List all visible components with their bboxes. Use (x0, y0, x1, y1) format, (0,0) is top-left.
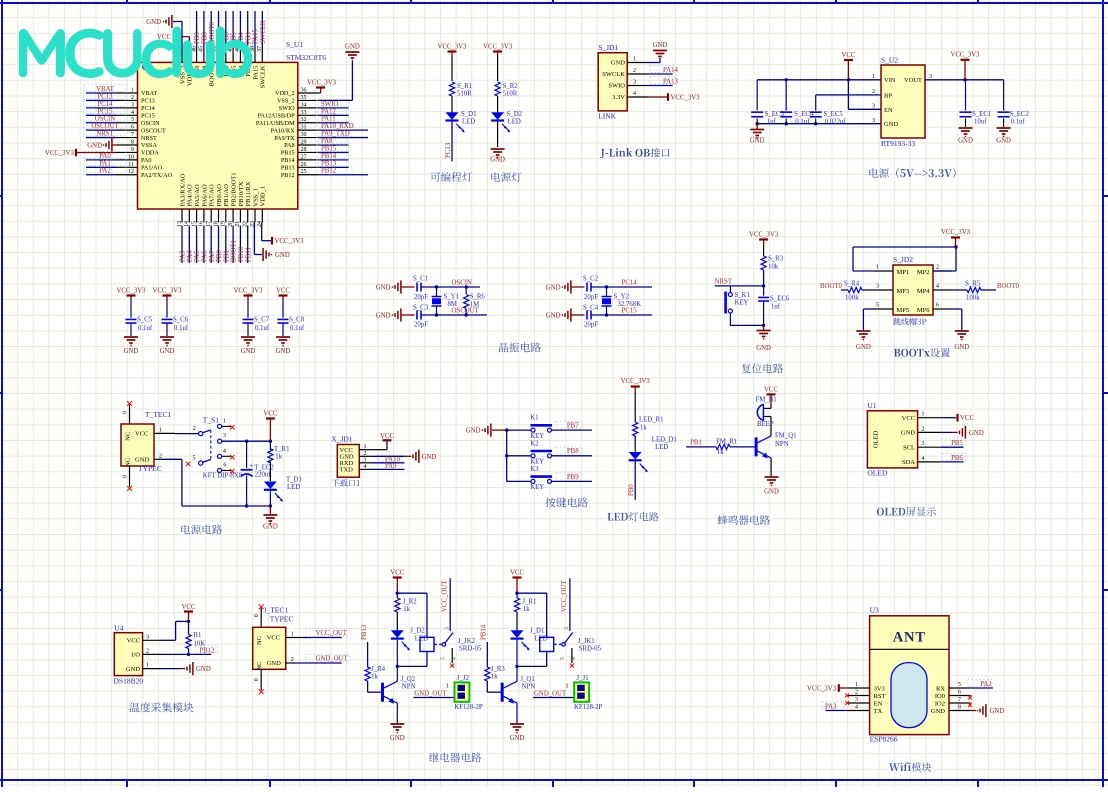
svg-text:5: 5 (876, 303, 879, 309)
svg-text:2: 2 (855, 690, 858, 696)
pin 2 (I/O) of U4 (131, 648, 160, 658)
svg-text:SCL: SCL (903, 445, 915, 452)
svg-text:10: 10 (128, 154, 134, 160)
svg-text:PB0: PB0 (216, 250, 223, 262)
svg-text:PA11/USB/DM: PA11/USB/DM (256, 120, 295, 127)
svg-text:KEY: KEY (735, 300, 749, 307)
svg-text:2: 2 (131, 95, 134, 101)
svg-text:PC13: PC13 (141, 98, 155, 105)
svg-text:PA7/AO: PA7/AO (209, 184, 216, 206)
wire + net label OSCOUT (84, 122, 126, 130)
svg-text:GND: GND (884, 121, 898, 128)
svg-text:S_EC5: S_EC5 (824, 111, 844, 118)
svg-text:S_Y1: S_Y1 (444, 294, 460, 301)
caption OLED屏显示 (877, 507, 936, 516)
pin 6 (OSCOUT) of S_U1, left (116, 125, 166, 135)
pin 41 (PB5) of S_U1, top (228, 46, 238, 77)
pin 7 (NRST) of S_U1, left (116, 132, 157, 142)
value 下载口1 (332, 479, 360, 487)
power port VCC (OLED) (958, 414, 975, 422)
svg-text:VSSA: VSSA (141, 142, 157, 149)
svg-text:VCC: VCC (135, 431, 148, 438)
svg-text:1uf: 1uf (771, 304, 781, 311)
wire + net label PC13 (84, 92, 126, 100)
no-connect markers on T_S1 (186, 425, 235, 473)
value TYPEC (138, 464, 162, 473)
svg-text:PB14: PB14 (281, 157, 295, 164)
svg-text:PB0: PB0 (628, 484, 635, 496)
svg-text:KEY: KEY (530, 459, 544, 466)
svg-text:VCC_3V3: VCC_3V3 (950, 52, 980, 59)
power port VCC (T circuit) (263, 411, 277, 442)
svg-text:GND: GND (263, 524, 278, 531)
svg-text:SWCLK: SWCLK (602, 71, 625, 78)
pin 0 bottom stub of J_TEC1 (254, 669, 261, 690)
svg-text:PA8: PA8 (284, 142, 294, 149)
wire pin2 to ground (940, 431, 957, 433)
capacitor S_EC6 1uf (758, 286, 790, 326)
wire + net label PC15 (84, 107, 126, 115)
resistor LED_R1 1k (633, 417, 664, 437)
relay contact pin4 stub (571, 648, 573, 663)
ground (DS18B20) (184, 662, 211, 675)
caption 继电器电路 (429, 753, 481, 763)
power port VCC (J_JK2 block) (390, 570, 404, 594)
pin 8 (GND) of U3 (931, 705, 971, 715)
svg-text:PB12: PB12 (199, 647, 215, 654)
power port VCC (supply input) (841, 52, 855, 80)
svg-text:VCC_OUT: VCC_OUT (561, 580, 568, 612)
svg-text:TXD: TXD (340, 467, 354, 474)
wire switch pin3 to VCC rail (222, 440, 271, 442)
svg-text:7: 7 (958, 697, 961, 703)
wire + net label PB1 (bottom) (223, 226, 230, 264)
LED T_D1 (264, 477, 302, 502)
power port VCC_3V3 (S_R1 column) (437, 44, 467, 58)
svg-text:GND: GND (87, 143, 102, 150)
svg-text:LINK: LINK (598, 112, 616, 121)
power port VCC_3V3 (S_JD1 pin4) (668, 93, 700, 101)
svg-text:BOOT0: BOOT0 (997, 283, 1020, 290)
resistor FM_R1 1k (716, 438, 737, 456)
wire + net label SWCLK (top) (260, 11, 267, 49)
ground (S_C4) (546, 308, 571, 321)
wire + net label PB8 (552, 447, 593, 456)
svg-text:26: 26 (301, 162, 307, 168)
svg-text:PB7: PB7 (567, 423, 579, 430)
LED S_D2 (491, 111, 523, 132)
pin 0 top stub of J_TEC1 (254, 608, 261, 628)
wire + net label PA7 (bottom) (209, 226, 216, 264)
pin name OLED rotated (873, 430, 880, 448)
wire + net label PC13 (445, 122, 452, 162)
junction (954, 245, 957, 248)
rotated net label PB13 (361, 624, 368, 640)
svg-text:T_TEC1: T_TEC1 (145, 410, 171, 419)
svg-text:7: 7 (131, 132, 134, 138)
svg-text:J_J2: J_J2 (457, 675, 470, 682)
svg-text:PC15: PC15 (622, 308, 638, 315)
svg-text:0.022uf: 0.022uf (825, 119, 847, 126)
pin 28 (PB15) of S_U1, right (281, 147, 319, 157)
wire + net label PB14 (317, 152, 349, 160)
svg-text:MP2: MP2 (917, 269, 930, 276)
svg-text:VSS_1: VSS_1 (252, 188, 259, 206)
svg-text:VCC_3V3: VCC_3V3 (45, 150, 75, 157)
designator S_JD2 (893, 255, 913, 264)
capacitor S_C3 20pF (413, 305, 429, 329)
svg-text:PB0/AO: PB0/AO (216, 184, 223, 207)
LED S_D1 (446, 111, 477, 132)
pin 4 (SDA) of U1 (902, 456, 940, 466)
svg-text:3: 3 (633, 80, 636, 86)
svg-text:PB11: PB11 (245, 247, 252, 262)
pin 9 (VDDA) of S_U1, left (116, 147, 159, 157)
net label BOOT0 (left) (820, 283, 843, 290)
wire (497, 96, 499, 113)
wire + net label PB4 (top) (238, 11, 245, 49)
junction (963, 78, 966, 81)
svg-text:PA3/RX/AO: PA3/RX/AO (179, 173, 186, 206)
pin 1 (GND) of S_JD1 (611, 57, 648, 67)
svg-text:S_EC6: S_EC6 (770, 296, 790, 303)
ground at S_U1 pin23 (263, 248, 290, 261)
junction (605, 285, 608, 316)
svg-text:GND: GND (958, 138, 973, 145)
wire + net label PA3 (822, 702, 848, 711)
svg-text:NC: NC (125, 458, 132, 467)
regulator S_U2 RT9193-33 body (881, 65, 925, 138)
svg-text:6: 6 (936, 303, 939, 309)
pin 24 (VDD_1) of S_U1, bottom (257, 186, 267, 227)
switch T_S1 KFT DIP-8X8 (193, 415, 243, 479)
svg-text:220uf: 220uf (255, 472, 272, 479)
svg-text:MP4: MP4 (917, 288, 930, 295)
designator S_U1 (286, 40, 303, 49)
pin 12 (PA2/TX/AO) of S_U1, left (116, 169, 173, 179)
ground (S_C5) (124, 337, 139, 355)
wire collector rail (397, 652, 427, 667)
pin 20 (PB2/BOOT1) of S_U1, bottom (228, 173, 238, 227)
pin 10 (PA0) of S_U1, left (116, 154, 151, 164)
svg-text:VDD_1: VDD_1 (260, 186, 267, 207)
wire pin1 loop to VCC_3V3 (853, 247, 956, 271)
no-connect marker (259, 689, 264, 694)
wire to base (368, 681, 383, 692)
svg-text:PB9: PB9 (194, 32, 201, 44)
svg-text:2: 2 (922, 426, 925, 432)
svg-text:LED: LED (287, 484, 300, 491)
svg-text:KEY: KEY (530, 433, 544, 440)
transistor FM_Q1 NPN (756, 433, 796, 459)
pin 48 (VSS_3) of S_U1, top (177, 46, 187, 84)
svg-text:GND: GND (376, 313, 391, 320)
pin 1 (GND) of U4 (126, 663, 160, 673)
designator U1 (867, 401, 876, 410)
wire (634, 392, 636, 422)
wire + net label PC14 (591, 280, 652, 288)
resistor S_R5 100k (952, 281, 996, 302)
value STM32C8T6 (286, 53, 326, 62)
svg-text:J_TEC1: J_TEC1 (264, 606, 289, 615)
caption J-Link OB接口 (600, 148, 669, 158)
svg-text:J_R3: J_R3 (491, 666, 506, 673)
ground (S_EC2) (996, 128, 1011, 145)
pin 1 VCC of T_TEC1 (154, 427, 175, 433)
svg-text:1k: 1k (403, 606, 410, 613)
wire (572, 314, 585, 316)
pin 19 (PB1/AO) of S_U1, bottom (221, 184, 231, 227)
svg-text:32.768K: 32.768K (618, 301, 642, 308)
svg-text:GND: GND (931, 708, 945, 715)
value TYPEC (270, 614, 294, 623)
rotated net label PB14 (481, 624, 488, 640)
svg-text:+: + (250, 461, 254, 470)
pin 45 (PB8) of S_U1, top (199, 46, 209, 77)
power port VCC (DS18B20) (182, 604, 196, 622)
svg-text:PB2/BOOT1: PB2/BOOT1 (231, 173, 238, 207)
svg-text:PA1: PA1 (99, 160, 110, 167)
pin 25 (PB12) of S_U1, right (281, 169, 319, 179)
svg-text:VCC: VCC (380, 433, 394, 440)
svg-text:GND: GND (750, 138, 765, 145)
power port VCC_3V3 (BOOTx) (941, 229, 971, 247)
junction (515, 665, 518, 668)
svg-text:K1: K1 (530, 415, 538, 422)
svg-text:PA2: PA2 (980, 681, 992, 688)
svg-text:4: 4 (855, 705, 858, 711)
pin 39 (PB3) of S_U1, top (243, 46, 253, 77)
svg-text:T_EC2: T_EC2 (254, 465, 274, 472)
pin 31 (PA10/RX) of S_U1, right (271, 125, 320, 135)
svg-text:5: 5 (131, 117, 134, 123)
wire (763, 270, 765, 286)
junction (396, 665, 399, 668)
svg-text:S_U1: S_U1 (286, 40, 303, 49)
wire + net label PA3 (bottom) (180, 226, 187, 264)
svg-text:PB12: PB12 (321, 168, 337, 175)
svg-text:S_R6: S_R6 (470, 294, 486, 301)
wire (497, 122, 499, 148)
svg-text:10uf: 10uf (974, 119, 987, 126)
wire + net label PB7 (top) (216, 11, 223, 49)
svg-text:8: 8 (958, 705, 961, 711)
pin 14 (PA4/AO) of S_U1, bottom (184, 184, 194, 227)
svg-text:0.1uf: 0.1uf (138, 325, 153, 332)
wire + net label PB3 (top) (245, 11, 252, 49)
crystal S_Y2 32.768K (602, 287, 642, 315)
svg-text:PB3: PB3 (245, 32, 252, 44)
op-amp U1 : main MCU S_U1 STM32C8T6 body (138, 62, 298, 209)
svg-text:1: 1 (633, 57, 636, 63)
svg-text:TYPEC: TYPEC (138, 464, 162, 473)
svg-text:S_JD2: S_JD2 (893, 255, 913, 264)
pin 27 (PB14) of S_U1, right (281, 154, 319, 164)
capacitor S_C4 20pF (583, 305, 599, 329)
pin 36 (VDD_2) of S_U1, right (275, 88, 319, 98)
ground (X_JD1 pin2) (410, 450, 437, 463)
svg-text:1k: 1k (640, 425, 647, 432)
svg-text:MP5: MP5 (897, 307, 910, 314)
svg-text:1k: 1k (275, 454, 282, 461)
svg-text:NC: NC (256, 661, 263, 670)
wire key bus vertical (506, 430, 508, 481)
svg-text:GND: GND (135, 457, 149, 464)
resistor R1 10K (186, 621, 205, 654)
svg-text:8M: 8M (448, 301, 457, 308)
wire + net label PB13 (317, 159, 349, 167)
pin names NC/VCC/GND of J_TEC1 (256, 635, 281, 671)
svg-text:PC14: PC14 (141, 105, 155, 112)
svg-text:PA7: PA7 (209, 250, 216, 262)
svg-text:PA4: PA4 (187, 250, 194, 262)
wire pin5 to ground (863, 309, 874, 330)
svg-text:32: 32 (301, 117, 307, 123)
connector S_JD2 body (893, 265, 933, 315)
designator S_U2 (881, 56, 898, 65)
svg-text:100k: 100k (966, 295, 980, 302)
svg-text:T_R1: T_R1 (274, 446, 289, 453)
svg-text:S_C6: S_C6 (173, 317, 189, 324)
ANT label and divider (870, 630, 949, 650)
svg-text:28: 28 (301, 147, 307, 153)
wire + net label OSCIN (421, 280, 480, 288)
svg-text:S_R4: S_R4 (844, 281, 860, 288)
svg-text:1k: 1k (523, 606, 530, 613)
svg-text:4: 4 (223, 448, 226, 454)
wire + net label PB9 (top) (194, 11, 201, 49)
pin stubs of T_S1 (222, 426, 231, 470)
connector X_JD1 body (337, 445, 359, 478)
resistor S_R4 100k (841, 281, 874, 302)
svg-text:8: 8 (131, 140, 134, 146)
no-connect marker (259, 604, 264, 609)
svg-text:SWCLK: SWCLK (260, 20, 267, 44)
wire EN row (848, 80, 881, 110)
svg-text:PA8: PA8 (321, 138, 333, 145)
svg-text:PA2: PA2 (99, 168, 111, 175)
capacitor S_EC1 10uf (960, 80, 992, 127)
pin 2 (RST) of U3 (848, 690, 886, 700)
svg-text:1k: 1k (371, 674, 378, 681)
svg-text:3: 3 (922, 441, 925, 447)
svg-text:OLED: OLED (873, 430, 880, 448)
junction (187, 653, 190, 656)
svg-text:PA4/AO: PA4/AO (187, 184, 194, 206)
svg-text:GND: GND (510, 735, 525, 742)
junction (187, 620, 190, 623)
svg-text:VBAT: VBAT (141, 90, 157, 97)
pin 2 (GND) of U1 (901, 426, 940, 436)
ground (S_C7) (241, 337, 256, 355)
svg-text:MP3: MP3 (897, 288, 910, 295)
pin names NC/VCC/GND of T_TEC1 (125, 431, 150, 467)
svg-text:VBAT: VBAT (96, 86, 115, 93)
svg-text:PA15: PA15 (252, 66, 259, 80)
capacitor S_EC4 0.1uf (780, 80, 814, 126)
power port VCC_3V3 (supply output) (950, 52, 980, 80)
svg-text:0: 0 (123, 411, 129, 414)
pin 6 (IO0) of U3 (935, 690, 971, 700)
capacitor S_C7 0.1uf (243, 300, 270, 336)
svg-text:PB8: PB8 (567, 448, 579, 455)
wire (770, 417, 772, 433)
svg-text:TX: TX (874, 708, 883, 715)
power port VCC at S_U1 pin47 (157, 33, 189, 49)
svg-text:S_JD1: S_JD1 (598, 43, 618, 52)
connector J_J2 KF128-2P (446, 675, 483, 711)
svg-text:27: 27 (301, 154, 307, 160)
svg-text:X_JD1: X_JD1 (331, 435, 353, 444)
wire (497, 57, 499, 81)
svg-text:K2: K2 (530, 440, 539, 447)
designator X_JD1 (331, 435, 353, 444)
svg-text:3.3V: 3.3V (612, 94, 625, 101)
pin 2 GND of J_TEC1 (286, 657, 295, 663)
svg-text:J_R1: J_R1 (522, 599, 536, 606)
pin 16 (PA6/AO) of S_U1, bottom (199, 184, 209, 227)
svg-text:NRST: NRST (141, 135, 157, 142)
junction (515, 592, 518, 595)
wire + net label OSCIN (84, 114, 126, 122)
svg-text:3: 3 (855, 697, 858, 703)
svg-text:33: 33 (301, 110, 307, 116)
junction (245, 440, 272, 443)
antenna pad graphic (891, 663, 927, 728)
caption 复位电路 (742, 364, 784, 374)
svg-text:VCC_3V3: VCC_3V3 (275, 238, 305, 245)
svg-text:NPN: NPN (775, 441, 789, 448)
svg-text:VCC: VCC (276, 288, 290, 295)
svg-text:SWIO: SWIO (279, 105, 295, 112)
svg-text:J_JK2: J_JK2 (458, 638, 476, 645)
svg-text:3: 3 (876, 284, 879, 290)
junction (396, 592, 399, 595)
svg-text:PA1/AO: PA1/AO (141, 165, 163, 172)
ground (S_C2) (546, 280, 571, 293)
no-connect marker (450, 664, 454, 668)
wire VDD_1 to VCC_3V3 (262, 223, 271, 241)
pin 2 (PC13) of S_U1, left (116, 95, 155, 105)
svg-text:GND: GND (196, 666, 211, 673)
connector J_J1 KF128-2P (566, 675, 603, 711)
pin 47 (VDD_3) of S_U1, top (184, 46, 194, 86)
ground (reset) (756, 325, 771, 352)
svg-text:BOOT1: BOOT1 (231, 240, 238, 262)
svg-text:VCC_3V3: VCC_3V3 (437, 44, 467, 51)
svg-text:GND: GND (275, 252, 290, 259)
svg-text:VCC: VCC (267, 635, 280, 642)
pin 44 (BOOT0) of S_U1, top (206, 46, 216, 86)
svg-text:3: 3 (364, 457, 367, 463)
ground at S_U1 pin35 (319, 44, 360, 101)
wire + net label PB0 (bottom) (216, 226, 223, 264)
svg-text:2: 2 (159, 453, 162, 459)
svg-text:PB12: PB12 (281, 172, 295, 179)
net label GND_OUT (534, 690, 567, 697)
sensor U4 DS18B20 body (114, 633, 142, 676)
svg-text:5: 5 (560, 657, 566, 660)
pin 26 (PB13) of S_U1, right (281, 162, 319, 172)
wire + net label BOOT1 (bottom) (231, 226, 238, 264)
svg-text:SRD-05: SRD-05 (459, 645, 482, 652)
no-connect marker (127, 486, 132, 491)
ground (S_D2) (490, 149, 505, 164)
svg-text:S_EC1: S_EC1 (972, 111, 991, 118)
svg-text:GND: GND (160, 348, 175, 355)
value DS18B20 (114, 677, 144, 686)
svg-text:2: 2 (146, 648, 149, 654)
